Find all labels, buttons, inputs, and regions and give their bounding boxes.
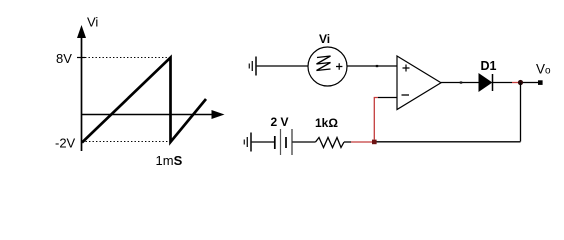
wire op-amp output to diode [441,82,479,84]
wire ground to source [257,65,309,67]
op-amp U1 [397,56,441,110]
diode D1 [479,74,493,91]
bottom feedback wire [377,141,521,143]
ground GND2 (bottom left) [244,133,251,152]
8V tick and dotted line [77,57,170,59]
wire output node down [520,83,522,142]
source VI circle [308,47,347,86]
wire node to Vo terminal [523,82,538,84]
wire resistor to junction (black part) [344,141,351,143]
op-amp plus input label [403,65,410,72]
svg-text:1mS: 1mS [156,153,183,168]
ground GND1 (top left) [249,57,256,76]
wire battery to resistor [293,141,316,143]
red wire up to inverting input [374,98,378,140]
wire ground to battery [252,141,275,143]
source sawtooth symbol [317,56,331,71]
y-axis [77,25,86,151]
wire diode to output node (black part) [493,82,512,84]
Vo terminal square [538,80,543,85]
pin tick on output wire [460,81,462,83]
svg-text:8V: 8V [56,51,72,66]
svg-text:Vi: Vi [319,32,330,46]
resistor R1 1k [316,138,345,148]
svg-text:D1: D1 [481,59,497,73]
pin tick on non-inverting input wire [376,65,378,67]
svg-text:1kΩ: 1kΩ [315,116,338,130]
wire red segment before output node [512,82,519,84]
svg-text:Vo: Vo [536,62,551,77]
wire to op-amp minus input [378,97,397,99]
-2V dotted line [82,141,170,143]
svg-text:-2V: -2V [55,136,76,151]
battery V1 2V [275,129,292,155]
svg-text:Vi: Vi [87,15,98,30]
junction square node [372,140,377,145]
x-axis [82,110,225,119]
sawtooth waveform [82,58,206,143]
op-amp minus input label [402,94,410,96]
wire source to op-amp [347,65,397,67]
wire resistor to junction (red part) [351,141,372,143]
svg-text:2 V: 2 V [271,115,289,129]
source plus sign [336,63,342,69]
junction node at output [518,80,523,85]
